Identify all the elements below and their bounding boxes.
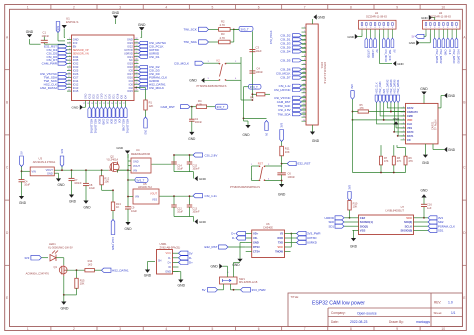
svg-text:CLK: CLK: [448, 50, 451, 55]
svg-text:CTS#: CTS#: [253, 250, 260, 254]
svg-text:DAT2: DAT2: [407, 107, 414, 110]
svg-text:4.7K: 4.7K: [220, 23, 226, 27]
svg-text:TNOW: TNOW: [275, 250, 283, 254]
svg-text:C: C: [463, 166, 466, 170]
svg-text:D+: D+: [231, 232, 235, 236]
svg-text:5V: 5V: [393, 50, 396, 53]
svg-text:SD1: SD1: [114, 119, 118, 125]
wire VDD row: [353, 119, 406, 121]
net flag CSI_VSYNC at FPC1: [293, 96, 302, 99]
svg-text:Date:: Date:: [331, 320, 339, 324]
gnd at U4 top: [125, 151, 130, 154]
svg-text:32: 32: [135, 38, 137, 40]
svg-text:XL-3000UWC-1W-3V: XL-3000UWC-1W-3V: [48, 246, 73, 250]
svg-text:GND: GND: [189, 79, 197, 83]
gnd below FPC1: [312, 125, 314, 132]
svg-text:ME6206A28X3M: ME6206A28X3M: [131, 153, 150, 156]
wire R5 to card CD/DAT3: [369, 111, 406, 113]
net flag CSI_D4 at FPC1: [293, 50, 302, 53]
capacitor C4 10uF at 5V input: [21, 171, 23, 179]
svg-text:CSI_MCLK: CSI_MCLK: [384, 50, 387, 63]
net flag TWI_SDA (U1 left pin 12): [58, 76, 67, 79]
svg-text:ID: ID: [168, 265, 171, 269]
uart U6 body: [252, 230, 285, 258]
svg-text:44: 44: [135, 79, 137, 81]
svg-text:100nF: 100nF: [288, 175, 296, 179]
power flag 3V3 at U1 top: [56, 22, 60, 33]
svg-text:3V3: 3V3: [24, 256, 29, 260]
gnd at USB right: [178, 280, 183, 283]
svg-text:Q2: Q2: [110, 154, 114, 158]
usb USB1 right stubs: [173, 252, 179, 254]
gnd below C4: [19, 196, 24, 199]
svg-text:GND: GND: [448, 94, 456, 98]
svg-text:SENSOR_VP: SENSOR_VP: [73, 48, 89, 52]
svg-text:100nF: 100nF: [192, 168, 200, 171]
svg-text:8: 8: [403, 135, 404, 137]
svg-text:13: 13: [68, 79, 70, 81]
svg-text:16: 16: [68, 90, 70, 92]
svg-text:12: 12: [68, 76, 70, 78]
connector FPC1 F0500-B-24-15T-R body: [306, 24, 318, 125]
svg-text:VIN: VIN: [135, 196, 139, 199]
svg-text:VIN: VIN: [133, 170, 137, 173]
gnd below reset button: [279, 184, 284, 187]
svg-text:4.7K: 4.7K: [220, 36, 226, 40]
svg-text:CSI_1.2v: CSI_1.2v: [205, 194, 218, 198]
svg-text:USB1: USB1: [160, 242, 168, 246]
svg-text:TITLE:: TITLE:: [291, 295, 300, 299]
resistor R14 1K0: [85, 269, 95, 272]
svg-text:IO5: IO5: [129, 69, 134, 73]
svg-text:25: 25: [115, 103, 117, 105]
gnd flag at U1 bottom left: [80, 105, 83, 110]
svg-text:2: 2: [73, 6, 75, 10]
svg-text:IO16: IO16: [117, 93, 120, 99]
svg-text:CSI_D7: CSI_D7: [280, 76, 291, 80]
svg-text:NC: NC: [129, 58, 133, 62]
junction at U1 CSI_MCLK pin: [135, 87, 137, 89]
svg-text:9: 9: [403, 139, 404, 141]
svg-text:SD2: SD2: [93, 94, 96, 99]
svg-text:4: 4: [165, 327, 167, 331]
svg-text:GND: GND: [83, 205, 91, 209]
svg-text:IO16: IO16: [127, 75, 133, 79]
svg-text:IO13: IO13: [73, 86, 79, 90]
svg-text:HS2_DATA0: HS2_DATA0: [394, 79, 397, 94]
svg-text:8: 8: [456, 27, 457, 29]
svg-text:RST: RST: [258, 161, 264, 165]
mcu U1 bottom pins: [85, 101, 87, 108]
svg-text:3: 3: [69, 45, 70, 47]
power flag 3V3 above R5: [351, 91, 354, 100]
header H2 body: [423, 20, 461, 29]
svg-text:42: 42: [135, 73, 137, 75]
wires FPC1 left rail: [240, 57, 242, 100]
svg-text:7: 7: [304, 6, 306, 10]
svg-text:CAM_RST: CAM_RST: [161, 105, 176, 109]
svg-text:U7: U7: [401, 205, 405, 209]
svg-text:K2: K2: [217, 58, 221, 62]
svg-text:CLK: CLK: [105, 94, 108, 99]
resistor R2 4.7K: [219, 28, 231, 32]
svg-text:10: 10: [68, 69, 70, 71]
wire Q1 gate to R14: [67, 269, 85, 271]
svg-text:D+: D+: [189, 261, 193, 265]
svg-text:CD/DAT3: CD/DAT3: [407, 111, 418, 114]
gnd top left of sheet: [113, 16, 118, 19]
net flag SD1 at U7 right: [420, 229, 429, 231]
svg-text:2: 2: [403, 111, 404, 113]
net flag D+ at USB: [179, 260, 189, 264]
gnd at card VSS: [393, 121, 398, 124]
wire H2 top gnd: [429, 15, 432, 20]
svg-text:GND: GND: [393, 117, 399, 121]
svg-text:1: 1: [362, 27, 363, 29]
svg-text:3V3_T: 3V3_T: [250, 85, 258, 89]
capacitor C7 100nF: [71, 170, 73, 178]
net flag U2RXD (U1 right pin): [139, 79, 148, 82]
net flag U2RXD at U7: [344, 217, 353, 219]
svg-text:HS2_DATA1: HS2_DATA1: [435, 50, 438, 65]
svg-text:5V: 5V: [189, 251, 193, 255]
svg-text:2: 2: [69, 42, 70, 44]
svg-text:HS2_DATA3: HS2_DATA3: [390, 79, 393, 94]
svg-text:17: 17: [83, 103, 85, 105]
svg-text:36: 36: [135, 52, 137, 54]
svg-text:9: 9: [396, 6, 398, 10]
net flag PSRAM_CLK (U1 right pin): [139, 76, 148, 79]
resistor R9 47K: [405, 148, 407, 157]
svg-text:CH340E: CH340E: [263, 225, 273, 229]
svg-text:IO15: IO15: [127, 89, 133, 93]
svg-text:3V3: 3V3: [60, 148, 64, 153]
svg-text:5V: 5V: [375, 50, 378, 53]
svg-text:20: 20: [95, 103, 97, 105]
svg-text:VOUT: VOUT: [46, 168, 54, 172]
svg-text:GND: GND: [242, 133, 250, 137]
svg-text:5: 5: [443, 27, 444, 29]
svg-text:GND: GND: [253, 241, 259, 245]
svg-text:IO34: IO34: [73, 55, 79, 59]
svg-text:8: 8: [69, 62, 70, 64]
svg-text:IO27: IO27: [73, 75, 79, 79]
svg-text:9: 9: [69, 66, 70, 68]
wire U7 VSS to gnd: [353, 229, 354, 231]
svg-text:21: 21: [99, 103, 101, 105]
svg-text:GND: GND: [127, 38, 133, 42]
svg-text:GND: GND: [61, 307, 69, 311]
svg-text:CSI_D4: CSI_D4: [280, 50, 291, 54]
svg-text:GND: GND: [409, 41, 415, 45]
svg-text:PTS815SJM250SMTRLFS: PTS815SJM250SMTRLFS: [230, 186, 260, 189]
svg-text:HS2_CMD: HS2_CMD: [379, 81, 382, 93]
svg-text:100nF: 100nF: [74, 181, 82, 185]
svg-text:10uF: 10uF: [89, 186, 95, 190]
net flag 3V3_PWR at U6: [297, 231, 307, 235]
net flag CSI_D5 at FPC1: [293, 59, 302, 62]
svg-text:Drawn By:: Drawn By:: [389, 320, 404, 324]
gnd at K2: [201, 78, 204, 83]
svg-text:D+: D+: [168, 260, 172, 264]
net flag TWI_SDA (pull-up row): [199, 40, 209, 44]
gnd CSI 1.2v caps: [174, 216, 194, 218]
gnd at rail bottom: [245, 125, 250, 128]
svg-text:7: 7: [452, 27, 453, 29]
svg-text:IO25: IO25: [73, 69, 79, 73]
resistor R10 10K: [348, 201, 351, 211]
net flag U0RXD at U6: [291, 242, 297, 244]
svg-text:1: 1: [69, 38, 70, 40]
net flag CSI_HSYNC (U1 right pin): [139, 41, 148, 44]
net flag CAM_RST at FPC1: [293, 100, 302, 103]
svg-text:HS2_DATA3: HS2_DATA3: [457, 50, 460, 65]
svg-text:VSS: VSS: [152, 199, 157, 202]
svg-text:IO12: IO12: [73, 82, 79, 86]
svg-text:VCC: VCC: [278, 245, 284, 249]
net flag CSI_VSYNC (U1 left pin 11): [58, 72, 67, 75]
svg-text:D-: D-: [189, 256, 192, 260]
svg-text:10uF: 10uF: [24, 183, 30, 187]
svg-text:1: 1: [27, 6, 29, 10]
usb USB1 body: [157, 250, 173, 275]
resistor R15 10K: [76, 270, 78, 278]
svg-text:1K0: 1K0: [88, 263, 93, 267]
header H2 gnd left: [416, 40, 419, 45]
svg-text:6: 6: [383, 27, 384, 29]
svg-text:47K: 47K: [397, 160, 402, 163]
svg-text:HS2_DATA2: HS2_DATA2: [94, 119, 98, 134]
svg-text:4: 4: [235, 78, 237, 80]
power port 3V3_T at U4: [128, 179, 135, 181]
svg-text:2: 2: [366, 27, 367, 29]
svg-text:1/1: 1/1: [451, 311, 456, 315]
net flag CSI_D7 (U1 left pin 7): [58, 59, 67, 62]
svg-text:GND: GND: [47, 172, 53, 176]
svg-text:IO13: IO13: [89, 93, 92, 99]
svg-text:GND: GND: [312, 139, 320, 143]
svg-text:E32_RST: E32_RST: [204, 245, 217, 249]
svg-text:37: 37: [135, 55, 137, 57]
svg-text:GND: GND: [165, 269, 171, 273]
wire LED to Q1: [56, 257, 64, 259]
net flag CAM_PWR (U1 left pin 8): [58, 62, 67, 65]
svg-text:GND: GND: [420, 87, 428, 91]
svg-text:3V3_PWR: 3V3_PWR: [252, 288, 267, 292]
svg-text:47K: 47K: [409, 160, 414, 163]
svg-text:GND: GND: [210, 265, 218, 269]
resistor R4 4.7K: [196, 105, 206, 109]
svg-text:IO22: IO22: [127, 44, 133, 48]
svg-text:7: 7: [304, 327, 306, 331]
svg-text:F0500-B-24-15T-R: F0500-B-24-15T-R: [323, 62, 327, 84]
svg-text:SD1: SD1: [113, 94, 116, 99]
svg-text:SH: SH: [158, 260, 162, 263]
svg-text:5V: 5V: [412, 35, 415, 38]
wire card VSS to gnd: [396, 127, 406, 129]
svg-text:ZX62-AB-5PA(31): ZX62-AB-5PA(31): [160, 246, 181, 250]
gnd above C16: [421, 194, 426, 197]
wire USB shield: [148, 261, 156, 263]
svg-text:VIN: VIN: [32, 170, 36, 174]
svg-text:12K: 12K: [149, 104, 154, 108]
gnd CSI 2.8V caps: [174, 171, 194, 173]
capacitor C2 100nF below R4: [191, 107, 193, 120]
svg-text:SD0: SD0: [109, 94, 112, 99]
svg-text:CSI_2.8V: CSI_2.8V: [205, 153, 218, 157]
power port 3V3_T top: [239, 26, 253, 31]
svg-text:R2: R2: [221, 20, 225, 24]
wire R3 up to junction: [230, 41, 234, 43]
svg-text:C1: C1: [43, 31, 47, 35]
resistor R6 below: [256, 93, 265, 96]
gnd right of card bottom: [444, 147, 447, 152]
gnd sideways at SW1: [219, 264, 222, 269]
wire U3 VOUT rail: [54, 169, 62, 171]
wire CSI_MCLK junction to R1: [136, 87, 145, 89]
svg-text:SD1: SD1: [438, 229, 444, 233]
svg-text:IO26: IO26: [73, 72, 79, 76]
svg-text:R6: R6: [250, 96, 254, 100]
svg-text:GND: GND: [124, 227, 132, 231]
net flag 5V at USB VCC: [179, 251, 189, 255]
net flag HS2_DATA2 (U1 left pin 15): [58, 86, 67, 89]
header H1 net flags: [365, 34, 367, 39]
svg-text:Company:: Company:: [331, 311, 346, 315]
title block: [288, 293, 462, 327]
wire gnd to SW1 rail: [223, 265, 228, 267]
svg-text:U0TXD: U0TXD: [124, 48, 133, 52]
svg-text:GND: GND: [133, 160, 139, 163]
svg-text:2022-08-23: 2022-08-23: [350, 320, 367, 324]
svg-text:CMD: CMD: [407, 115, 413, 118]
svg-text:U0RXD: U0RXD: [371, 50, 374, 59]
svg-text:IO18: IO18: [127, 65, 133, 69]
sd card CARD1 pin names: [401, 107, 406, 109]
svg-text:10K: 10K: [104, 180, 109, 184]
svg-text:IO2: IO2: [129, 86, 134, 90]
net flag CSI_HSYNC at FPC1: [293, 88, 302, 91]
svg-text:HS2_DATA1: HS2_DATA1: [126, 119, 130, 134]
capacitor C9 10uF: [127, 197, 129, 207]
svg-text:VCC: VCC: [166, 251, 172, 255]
svg-text:TWI_SCK: TWI_SCK: [183, 28, 196, 32]
svg-text:U0TXD: U0TXD: [307, 236, 316, 240]
svg-text:Q1: Q1: [54, 265, 58, 269]
svg-text:CMD: CMD: [101, 93, 104, 99]
svg-text:38: 38: [135, 59, 137, 61]
svg-text:IO14: IO14: [73, 79, 79, 83]
svg-text:D: D: [463, 231, 466, 235]
svg-text:1: 1: [208, 61, 210, 63]
svg-text:10uF: 10uF: [131, 209, 137, 213]
power flag 3V3 at U3 VOUT: [60, 156, 64, 167]
resistor R8 47K: [393, 145, 395, 156]
net flag CAM_PWR vertical: [112, 211, 114, 220]
svg-text:R3: R3: [221, 32, 225, 36]
power port 3V3_T mid: [249, 84, 262, 89]
svg-text:15: 15: [68, 86, 70, 88]
net flag CSI_MCLK (U1 right pin): [139, 86, 148, 89]
svg-text:GND: GND: [69, 199, 77, 203]
svg-text:CLK: CLK: [407, 123, 412, 126]
resistor R3 4.7K: [219, 40, 231, 44]
svg-text:1.0: 1.0: [448, 301, 453, 305]
svg-text:3: 3: [119, 6, 121, 10]
svg-text:40: 40: [135, 66, 137, 68]
svg-text:6: 6: [258, 6, 260, 10]
header H1 gnd left: [355, 34, 358, 39]
svg-text:Open-source: Open-source: [357, 311, 377, 315]
gnd above U1 right corner: [139, 27, 144, 30]
svg-text:REV:: REV:: [434, 301, 441, 305]
mcu U1 ESP32-S body: [72, 35, 135, 101]
svg-text:TWI_SDA: TWI_SDA: [183, 40, 196, 44]
svg-text:U0TXD: U0TXD: [366, 50, 369, 58]
svg-text:19: 19: [91, 103, 93, 105]
svg-text:4: 4: [439, 27, 440, 29]
svg-text:5V: 5V: [202, 288, 206, 292]
gnd at U3: [56, 178, 61, 181]
svg-text:100nF: 100nF: [195, 121, 203, 124]
wire 3V3 to R11: [281, 142, 283, 147]
wire U6 VCC to V3: [290, 246, 293, 248]
svg-text:IO15: IO15: [73, 89, 79, 93]
svg-text:3V3_T: 3V3_T: [241, 27, 250, 31]
svg-text:GND: GND: [73, 38, 79, 42]
svg-text:8: 8: [350, 6, 352, 10]
svg-text:3V3: 3V3: [351, 84, 354, 89]
svg-text:HS2_DATA2: HS2_DATA2: [386, 79, 389, 94]
svg-text:8: 8: [350, 327, 352, 331]
net flag CSI_D7 at FPC1: [293, 76, 302, 79]
svg-text:H2: H2: [439, 11, 443, 15]
svg-text:GND: GND: [72, 106, 80, 110]
net flag CSI_D4 (U1 left pin 4): [58, 48, 67, 51]
net flag E32_RST at U6 RTS: [228, 246, 246, 248]
svg-text:10K: 10K: [353, 205, 358, 209]
capacitor C14 10uF: [171, 161, 177, 163]
svg-text:GND: GND: [422, 161, 430, 165]
svg-text:B: B: [463, 101, 465, 105]
gnd right of card top: [444, 93, 447, 98]
mcu U1 bottom net flags: [88, 107, 91, 117]
svg-text:GND: GND: [188, 137, 196, 141]
wires CSI 2.8V rail: [152, 163, 175, 165]
svg-text:TWI_SDA: TWI_SDA: [278, 112, 291, 116]
svg-text:CAM_PWR: CAM_PWR: [42, 62, 58, 66]
svg-text:HS2_CMD: HS2_CMD: [122, 119, 126, 132]
svg-text:HS2_DATA2: HS2_DATA2: [40, 86, 57, 90]
svg-text:3: 3: [403, 115, 404, 117]
svg-text:GND: GND: [397, 62, 403, 66]
wire 3V3 down to R5 row: [352, 99, 354, 120]
svg-text:39: 39: [135, 62, 137, 64]
wire Q2 gate to R12: [101, 185, 103, 191]
svg-text:3: 3: [434, 27, 435, 29]
net flag 3V3_PWR at SW1: [241, 288, 251, 292]
capacitor C16 1uF: [421, 203, 427, 205]
svg-text:IO33: IO33: [73, 65, 79, 69]
svg-text:3V3: 3V3: [143, 130, 146, 135]
svg-text:IO4: IO4: [129, 79, 134, 83]
svg-text:LED1: LED1: [49, 242, 56, 246]
svg-text:E: E: [463, 296, 465, 300]
regulator U3 AP2210N-3.3TRG1: [30, 167, 54, 176]
switch SW1 MS-32505-L2-B body: [220, 277, 238, 284]
svg-text:2: 2: [73, 327, 75, 331]
svg-text:RXD: RXD: [278, 236, 284, 240]
